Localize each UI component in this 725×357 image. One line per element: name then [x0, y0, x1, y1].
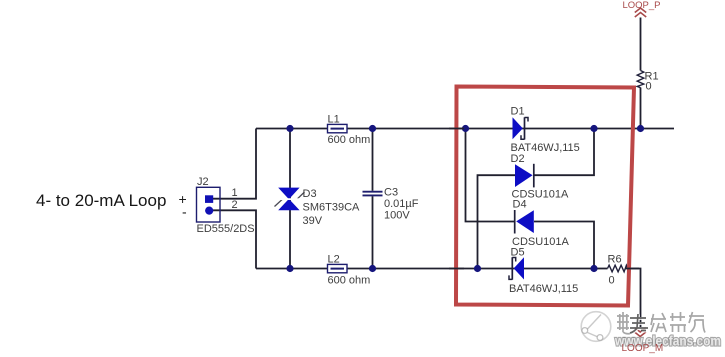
wire D2 to right column up: [534, 129, 594, 176]
svg-text:4- to 20-mA Loop: 4- to 20-mA Loop: [36, 191, 166, 210]
svg-text:SM6T39CA: SM6T39CA: [303, 202, 361, 214]
wire R1 to top rail: [640, 88, 642, 129]
wire D3 column: [289, 129, 291, 269]
diode D4: [515, 210, 534, 234]
wire J2 pin2 to bottom rail: [213, 210, 256, 268]
wire bottom rail: [256, 268, 594, 270]
node top rail / D3: [286, 125, 293, 132]
svg-text:-: -: [182, 204, 187, 220]
wire crossings over red box edges: [449, 129, 639, 269]
svg-text:L2: L2: [328, 253, 340, 265]
resistor R1: [637, 71, 644, 88]
watermark hanzi char 2 (dark): [630, 314, 648, 334]
svg-text:LOOP_M: LOOP_M: [622, 343, 664, 354]
port LOOP_P off-page connector: [635, 8, 646, 17]
watermark hanzi char 1: [617, 312, 630, 334]
node bottom rail / R6: [590, 265, 597, 272]
svg-text:J2: J2: [197, 176, 209, 188]
svg-text:LOOP_P: LOOP_P: [623, 0, 661, 11]
node bottom rail / D2 branch: [474, 265, 481, 272]
svg-text:D1: D1: [511, 106, 525, 118]
wire D4 to right column down: [534, 222, 594, 269]
wire dot to R6: [594, 268, 608, 270]
svg-text:D3: D3: [303, 188, 317, 200]
inductor L1: [328, 124, 348, 132]
svg-text:D4: D4: [513, 199, 527, 211]
wire box left column to D4 row: [466, 129, 515, 222]
watermark hanzi char 5: [689, 312, 705, 333]
svg-text:600 ohm: 600 ohm: [328, 134, 371, 146]
red highlight box: [456, 87, 634, 306]
diode D5: [509, 257, 524, 280]
svg-text:600 ohm: 600 ohm: [328, 275, 371, 287]
connector J2: [197, 187, 221, 222]
node bottom rail / D3: [286, 265, 293, 272]
TVS diode D3: [275, 188, 305, 211]
node top rail / box left: [462, 125, 469, 132]
port LOOP_M off-page connector: [635, 328, 646, 337]
node top rail / C3: [369, 125, 376, 132]
svg-text:D2: D2: [511, 153, 525, 165]
svg-text:D5: D5: [511, 247, 525, 259]
svg-text:R6: R6: [608, 254, 622, 266]
svg-text:0.01µF: 0.01µF: [384, 198, 419, 210]
watermark logo circle: [581, 312, 611, 342]
node top rail / R1: [637, 125, 644, 132]
svg-text:C3: C3: [384, 187, 398, 199]
resistor R6: [608, 265, 628, 272]
svg-text:0: 0: [609, 275, 615, 287]
wire C3 column: [372, 129, 374, 269]
node top rail / box right: [590, 125, 597, 132]
wire LOOP_P to R1: [640, 18, 642, 71]
wire J2 pin1 to top rail: [213, 129, 256, 199]
wire D2 left column: [478, 175, 516, 268]
node bottom rail / C3: [369, 265, 376, 272]
wire top rail: [256, 128, 674, 130]
diode D2: [515, 164, 534, 188]
svg-text:BAT46WJ,115: BAT46WJ,115: [509, 283, 578, 295]
capacitor C3: [363, 192, 383, 196]
svg-text:ED555/2DS: ED555/2DS: [197, 223, 255, 235]
svg-text:39V: 39V: [303, 215, 323, 227]
inductor L2: [328, 264, 348, 272]
svg-text:100V: 100V: [384, 210, 410, 222]
svg-text:2: 2: [232, 199, 238, 211]
svg-text:1: 1: [232, 187, 238, 199]
diode D1: [513, 117, 529, 139]
svg-text:0: 0: [646, 81, 652, 93]
watermark hanzi char 3: [651, 313, 666, 332]
svg-text:L1: L1: [328, 114, 340, 126]
watermark hanzi char 4: [670, 312, 686, 332]
wire R6 to LOOP_M: [628, 269, 641, 328]
